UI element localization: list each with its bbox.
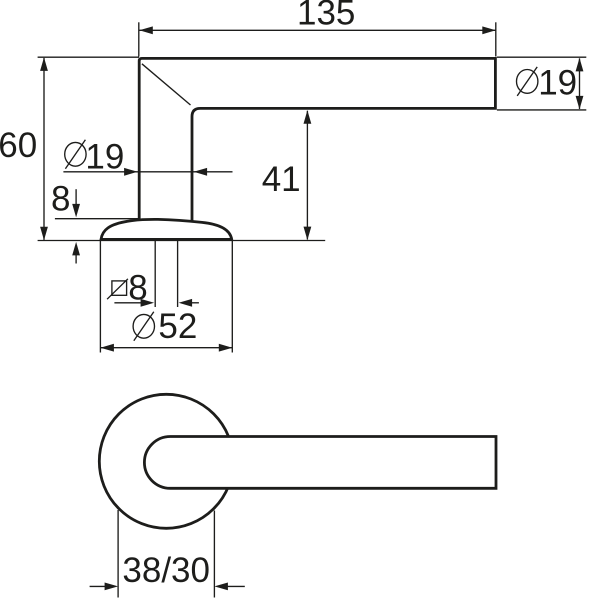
svg-text:8: 8 <box>51 180 70 219</box>
svg-text:52: 52 <box>158 307 197 346</box>
svg-text:19: 19 <box>85 137 124 176</box>
svg-text:41: 41 <box>262 160 301 199</box>
svg-text:60: 60 <box>0 126 37 165</box>
svg-text:38/30: 38/30 <box>122 551 210 590</box>
svg-text:135: 135 <box>297 0 355 33</box>
svg-text:19: 19 <box>538 64 577 103</box>
